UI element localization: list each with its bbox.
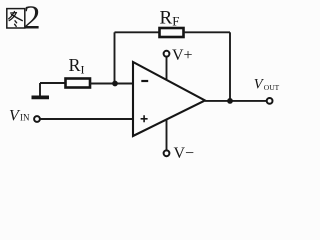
V+ supply terminal — [166, 57, 168, 80]
input terminal VIN — [34, 116, 40, 122]
op-amp U1 — [133, 62, 205, 136]
wire: ground to RI — [40, 82, 66, 84]
svg-text:2: 2 — [24, 0, 41, 37]
svg-text:IN: IN — [20, 113, 30, 123]
wire: feedback left vertical — [114, 32, 116, 83]
svg-text:V−: V− — [174, 145, 195, 162]
wire: feedback top-right horizontal — [184, 31, 231, 33]
wire: VIN to non-inverting input — [40, 118, 133, 120]
wire: RI to inverting input — [90, 83, 133, 85]
wire: output — [205, 100, 266, 102]
svg-text:OUT: OUT — [264, 83, 280, 92]
node: feedback junction dot — [112, 81, 118, 87]
node: output junction dot — [227, 98, 233, 104]
wire: feedback top-left horizontal — [115, 31, 160, 33]
V- supply terminal — [166, 120, 168, 150]
resistor RI — [66, 79, 91, 88]
minus sign (inverting input) — [141, 80, 148, 82]
wire: output right vertical — [229, 32, 231, 101]
svg-text:V+: V+ — [172, 47, 193, 64]
output terminal VOUT — [267, 98, 273, 104]
figure label 图2 — [7, 9, 25, 28]
ground — [39, 83, 41, 96]
resistor RF — [160, 28, 184, 37]
plus sign (non-inverting input) — [141, 115, 148, 122]
